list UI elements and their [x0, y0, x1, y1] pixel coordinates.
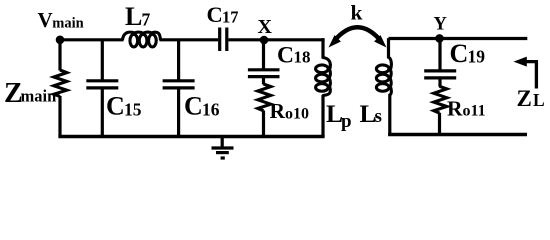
wire: top rail mid (C17 right plate to Lp corner) [228, 38, 324, 41]
capacitor C15 (shunt) [101, 40, 104, 81]
svg-text:C: C [277, 42, 294, 68]
arrow ZL (load looking-in arrow) [514, 57, 527, 67]
svg-text:C: C [184, 92, 203, 121]
wire: bottom rail right section [388, 133, 527, 137]
wire: top rail left (Vmain node to L7) [60, 38, 124, 41]
svg-text:o11: o11 [463, 103, 486, 120]
svg-text:C: C [207, 2, 223, 27]
node Y (junction dot) [435, 34, 444, 43]
svg-text:7: 7 [142, 10, 151, 30]
svg-text:19: 19 [468, 47, 486, 67]
node Vmain (junction dot) [56, 36, 65, 45]
svg-text:Z: Z [517, 86, 532, 111]
svg-text:R: R [447, 97, 463, 121]
resistor Ro10 (below C18) [258, 84, 271, 111]
svg-text:s: s [375, 106, 382, 127]
svg-text:15: 15 [124, 99, 142, 119]
svg-text:Y: Y [434, 14, 448, 34]
capacitor C19 (in Y branch) [438, 39, 441, 71]
svg-text:C: C [106, 92, 125, 121]
svg-text:X: X [258, 16, 273, 38]
svg-text:V: V [38, 8, 53, 32]
inductor L7 (series coil on top rail) [123, 32, 161, 47]
capacitor C18 (in X branch) [262, 40, 265, 70]
svg-text:18: 18 [294, 48, 311, 67]
svg-text:R: R [270, 99, 286, 123]
svg-text:main: main [21, 86, 57, 105]
svg-text:L: L [533, 90, 545, 110]
capacitor C17 (series, vertical plates) [218, 28, 221, 52]
svg-text:L: L [125, 2, 142, 31]
resistor Zmain (vertical zigzag) [54, 70, 67, 96]
svg-text:p: p [341, 111, 352, 132]
wire: bottom rail left section [58, 135, 324, 139]
svg-text:17: 17 [222, 8, 239, 27]
svg-text:k: k [351, 0, 363, 24]
coupling arrow k (between Lp and Ls) [334, 27, 381, 41]
wire: left vertical (Vmain to Zmain to bottom rail) [58, 40, 61, 71]
ground [221, 137, 224, 148]
svg-text:16: 16 [202, 99, 220, 119]
svg-text:o10: o10 [285, 105, 309, 122]
wire: top rail right (Ls to end) [389, 37, 528, 40]
capacitor C16 (shunt) [177, 40, 180, 81]
wire: top rail (L7 to C17 left plate) [160, 38, 219, 41]
inductor Lp (primary, vertical coil) [321, 38, 324, 58]
svg-text:main: main [52, 16, 83, 32]
node X (junction dot) [260, 36, 269, 45]
inductor Ls (secondary, vertical coil) [387, 38, 390, 58]
svg-text:C: C [450, 39, 469, 68]
resistor Ro11 (below C19) [434, 86, 447, 113]
